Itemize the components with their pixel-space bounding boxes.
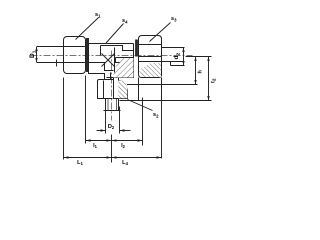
- dimension D1: [36, 47, 38, 62]
- label D1: [29, 50, 36, 58]
- nut N3 right (upper half): [139, 36, 162, 57]
- stud: [105, 99, 107, 111]
- body outline: [89, 43, 134, 45]
- svg-text:h: h: [197, 70, 203, 74]
- svg-text:2: 2: [211, 78, 216, 81]
- svg-text:s1: s1: [95, 12, 101, 18]
- dimension L1 L4 row: [63, 78, 65, 160]
- nut N3 bottom edge on axis: [139, 56, 162, 58]
- cone lines X: [102, 54, 115, 67]
- label h: [197, 70, 203, 74]
- dimension t2 (outer right): [208, 57, 210, 101]
- leader s3: [150, 23, 171, 42]
- band below ring: [138, 78, 140, 101]
- node tube end tick: [56, 60, 58, 67]
- ring section right: [139, 57, 162, 78]
- svg-text:s4: s4: [122, 18, 128, 24]
- wire tube left top: [37, 46, 64, 48]
- extension line y84: [127, 84, 198, 86]
- bore wall: [114, 48, 116, 78]
- centerline branch axis: [111, 51, 113, 121]
- body hatch tip: [114, 73, 128, 78]
- tube right: [162, 47, 185, 49]
- svg-text:L4: L4: [122, 160, 128, 166]
- extension axis right: [186, 56, 212, 58]
- leader s2: [128, 100, 153, 111]
- leader s1: [76, 18, 99, 40]
- svg-text:1: 1: [31, 50, 36, 53]
- svg-text:s2: s2: [153, 112, 159, 118]
- label d2: [173, 52, 180, 59]
- dimension d2: [183, 48, 185, 66]
- washer W1: [86, 38, 89, 72]
- dimension h (inner right): [195, 57, 197, 85]
- svg-text:l1: l1: [93, 143, 98, 149]
- leader s4: [106, 24, 124, 44]
- svg-text:D2: D2: [108, 124, 115, 130]
- nut N2 bottom (half view): [98, 80, 114, 99]
- svg-text:s3: s3: [171, 16, 177, 22]
- dimension l1 l2 row: [85, 76, 87, 144]
- centerline main axis: [31, 55, 193, 57]
- svg-text:2: 2: [175, 52, 180, 55]
- extension line y100: [120, 100, 212, 102]
- wire tube left bottom: [37, 62, 64, 64]
- svg-text:l2: l2: [121, 143, 126, 149]
- nut N1 left: [64, 37, 86, 74]
- label t2: [210, 78, 216, 83]
- washer W2 right port: [135, 40, 138, 57]
- locknut section: [114, 78, 128, 99]
- body section hatch: [116, 58, 134, 78]
- svg-text:L1: L1: [77, 160, 83, 166]
- dimension D2: [105, 107, 107, 134]
